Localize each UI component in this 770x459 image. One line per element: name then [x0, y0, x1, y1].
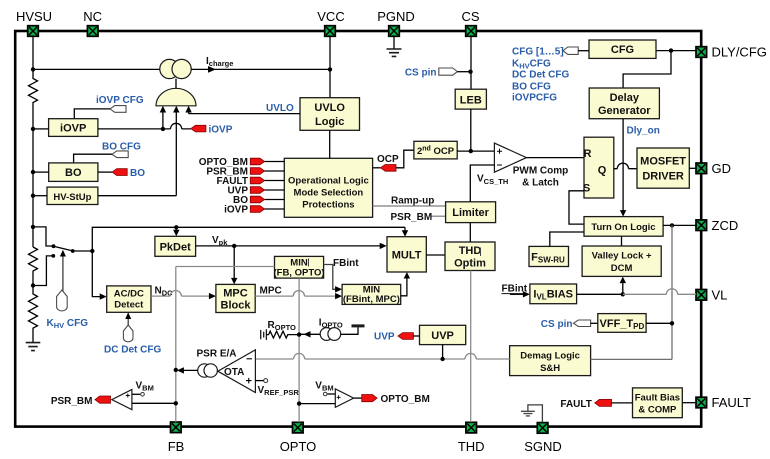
- Valley Lock + DCM box: [582, 246, 661, 276]
- wire UVLO to dome: [189, 113, 300, 115]
- svg-text:FAULT: FAULT: [712, 395, 752, 410]
- wire Turn On to ZCD pin: [663, 224, 696, 226]
- svg-text:& COMP: & COMP: [638, 404, 677, 415]
- wire MPC out with hop: [255, 291, 336, 297]
- BO box: [49, 163, 98, 182]
- wire FBint elbow: [324, 265, 337, 290]
- comparator PSR_BM: [112, 390, 132, 410]
- MIN (FBint, MPC) box: [342, 284, 401, 304]
- 2nd OCP box: [414, 141, 457, 159]
- svg-text:R: R: [584, 148, 592, 160]
- pin SGND: [524, 423, 562, 454]
- iOVP box: [49, 119, 98, 137]
- OTA output current source: [198, 364, 211, 377]
- FSW-RU box: [529, 246, 569, 266]
- HV-StUp box: [47, 187, 98, 204]
- svg-text:BO CFG: BO CFG: [512, 81, 551, 92]
- svg-text:DC Det CFG: DC Det CFG: [104, 345, 161, 356]
- AC/DC Detect box: [107, 286, 151, 312]
- wire VFF_TPD to ZCD rail: [646, 322, 672, 324]
- arrow Vpk into MPC block: [233, 246, 235, 279]
- svg-text:BO: BO: [130, 168, 145, 179]
- svg-text:UVLO: UVLO: [266, 103, 294, 114]
- switch blade KHV: [54, 246, 73, 251]
- svg-text:CFG: CFG: [611, 44, 634, 56]
- svg-text:DLY/CFG: DLY/CFG: [712, 45, 767, 60]
- op logic box U1: [284, 158, 372, 217]
- wire iOVP CFG to iOVP box: [74, 109, 110, 119]
- svg-text:CS pin: CS pin: [405, 68, 437, 79]
- svg-text:Delay: Delay: [610, 92, 640, 104]
- wire to PWM + input: [457, 150, 494, 152]
- svg-text:Detect: Detect: [114, 300, 144, 311]
- Delay Generator box: [589, 88, 659, 119]
- wire MIN out up to MULT: [401, 278, 407, 296]
- pin NC: [83, 9, 102, 36]
- svg-text:GD: GD: [712, 161, 732, 176]
- pin DLY/CFG: [696, 45, 767, 60]
- PWM comparator: [494, 143, 526, 172]
- pin OPTO: [280, 422, 317, 454]
- svg-text:UVLO: UVLO: [314, 102, 345, 114]
- pin THD: [458, 422, 485, 454]
- pin FB: [168, 422, 185, 454]
- wire Turn On to FSW-RU: [550, 232, 584, 246]
- wire Icharge to current mirror: [33, 68, 160, 70]
- svg-text:UVP: UVP: [431, 330, 454, 342]
- flag OCP: [381, 165, 397, 172]
- rail stub ROPTO: [261, 329, 267, 340]
- svg-text:(FB, OPTO): (FB, OPTO): [273, 267, 324, 278]
- PkDet box: [155, 236, 196, 256]
- svg-text:CS: CS: [461, 9, 479, 24]
- svg-text:HV-StUp: HV-StUp: [53, 192, 91, 203]
- svg-text:Dly_on: Dly_on: [627, 126, 660, 137]
- svg-text:Limiter: Limiter: [452, 207, 489, 219]
- wire tap lower: [33, 256, 52, 286]
- wire LEB down: [470, 109, 472, 151]
- svg-text:iOVP: iOVP: [60, 123, 86, 135]
- current mirror (Icharge source): [160, 59, 179, 78]
- wire IVLBIAS to VL pin with hop: [577, 293, 623, 295]
- resistor R divider upper: [29, 247, 38, 286]
- wire HV-StUp out to dome line: [98, 195, 176, 197]
- MPC Block box: [216, 284, 255, 312]
- svg-text:S&H: S&H: [540, 363, 560, 374]
- resistor R divider lower: [29, 286, 38, 343]
- svg-text:OPTO: OPTO: [280, 439, 317, 454]
- node PkDet branch: [174, 225, 178, 229]
- svg-text:Fault Bias: Fault Bias: [635, 392, 680, 403]
- wire OTA out to FB rail: [179, 369, 198, 371]
- flag BO: [112, 169, 127, 176]
- pin PGND: [377, 9, 415, 36]
- svg-text:S: S: [583, 182, 590, 194]
- UVLO Logic box: [300, 98, 360, 131]
- wire Turn On to Valley Lock: [621, 236, 623, 246]
- stub VBM PSR: [132, 393, 140, 395]
- svg-text:ZCD: ZCD: [712, 218, 739, 233]
- flag OPTO_BM out: [354, 397, 362, 399]
- svg-text:FAULT: FAULT: [560, 399, 591, 410]
- wire BO out: [98, 171, 112, 173]
- VFF_TPD box: [598, 314, 646, 333]
- Limiter box: [446, 202, 496, 223]
- flag iOVP input: [224, 204, 284, 215]
- svg-text:KHVCFG: KHVCFG: [512, 58, 551, 70]
- svg-text:& Latch: & Latch: [522, 178, 559, 189]
- svg-text:BO: BO: [65, 167, 82, 179]
- Turn On Logic box: [584, 217, 663, 237]
- Demag Logic S&H box: [510, 346, 591, 376]
- svg-text:SGND: SGND: [524, 439, 562, 454]
- MULT box: [387, 237, 426, 272]
- callout KHV CFG: [57, 290, 68, 311]
- svg-text:CFG [1…5]: CFG [1…5]: [512, 47, 564, 58]
- svg-text:PkDet: PkDet: [160, 242, 192, 254]
- node iOVP / dome arrow: [161, 127, 165, 131]
- arrow VL sense into Valley Lock: [622, 281, 624, 294]
- flag BO input: [233, 195, 284, 206]
- dome arrow right (from UVLO): [188, 109, 190, 114]
- node BO left: [31, 170, 35, 174]
- svg-text:iOVP: iOVP: [224, 204, 248, 215]
- wire OPTO rail: [298, 278, 300, 422]
- svg-text:PSR E/A: PSR E/A: [197, 349, 237, 360]
- pin FAULT: [696, 395, 751, 410]
- wire oplogic to OCP flag: [373, 167, 381, 169]
- supply bar IOPTO: [341, 327, 358, 334]
- node VCC junction: [328, 67, 332, 71]
- node divider top: [31, 225, 35, 229]
- svg-text:Turn On Logic: Turn On Logic: [591, 222, 655, 233]
- pin CS: [461, 9, 479, 36]
- wire UVLO Logic to Op Logic: [329, 130, 331, 158]
- wire FB rail: [175, 267, 177, 423]
- wire OTA minus rail to Demag with hops: [255, 353, 509, 359]
- pin ZCD: [696, 218, 738, 233]
- wire CS pin down: [470, 36, 472, 89]
- wire driver to GD pin: [689, 167, 696, 169]
- flag iOVP: [191, 125, 206, 132]
- svg-text:iOVPCFG: iOVPCFG: [512, 93, 557, 104]
- arrow into PkDet: [175, 227, 177, 231]
- svg-text:DCM: DCM: [611, 263, 633, 274]
- chip outline border: [15, 31, 701, 427]
- svg-text:PWM Comp: PWM Comp: [513, 166, 569, 177]
- wire PSR comp minus to FB rail: [132, 402, 176, 404]
- svg-text:CS pin: CS pin: [541, 319, 573, 330]
- LEB box: [455, 89, 486, 109]
- node 2nd OCP / PWM+: [469, 149, 473, 153]
- svg-text:THD: THD: [458, 439, 485, 454]
- wire ramp-up: [373, 205, 446, 207]
- arrow KHV CFG actuator: [62, 255, 64, 296]
- pin VCC: [317, 9, 344, 36]
- svg-text:PSR_BM: PSR_BM: [391, 212, 433, 223]
- dome OR-gate shape: [156, 88, 196, 106]
- dome arrow middle (from HV-StUp): [175, 109, 177, 196]
- MOSFET DRIVER box: [637, 148, 689, 188]
- svg-text:OTA: OTA: [224, 367, 244, 378]
- svg-text:FB: FB: [168, 439, 185, 454]
- svg-text:MPC: MPC: [260, 286, 282, 297]
- svg-text:VCC: VCC: [317, 9, 344, 24]
- wire THD Optim down to THD pin: [470, 271, 472, 423]
- svg-text:OPTO_BM: OPTO_BM: [381, 394, 430, 405]
- node ROPTO/OPTO rail: [297, 332, 301, 336]
- callout CFG: [563, 47, 578, 54]
- pin GD: [696, 161, 731, 176]
- CFG box: [589, 40, 656, 58]
- ground left: [26, 343, 41, 351]
- svg-text:Q: Q: [598, 165, 607, 177]
- callout iOVP CFG: [110, 106, 126, 113]
- node UVP sense: [440, 357, 444, 361]
- callout DC Det CFG: [123, 325, 133, 342]
- wire UVP down: [442, 345, 444, 359]
- svg-text:HVSU: HVSU: [16, 9, 52, 24]
- wire CFG junction to Delay Generator: [623, 51, 671, 88]
- stub VBM OPTO: [327, 393, 335, 395]
- UVP box: [420, 325, 466, 344]
- svg-text:MULT: MULT: [392, 249, 422, 261]
- resistor R top (HVSU divider): [29, 69, 38, 128]
- svg-text:(FBint, MPC): (FBint, MPC): [343, 294, 400, 305]
- wire OPTO rail to comp minus: [299, 403, 335, 405]
- wire iOVP out with hop: [98, 123, 191, 129]
- wire limiter to THD optim: [469, 223, 471, 242]
- svg-text:Optim: Optim: [454, 258, 486, 270]
- MIN (FB, OPTO) box: [275, 256, 324, 278]
- node iOVP left: [31, 127, 35, 131]
- RS latch U2: [584, 137, 614, 198]
- svg-text:iOVP: iOVP: [209, 124, 233, 135]
- svg-text:DRIVER: DRIVER: [642, 171, 684, 183]
- node FB/OTA: [174, 368, 178, 372]
- ground SGND: [528, 405, 543, 423]
- wire current mirror to VCC rail: [191, 68, 330, 70]
- svg-text:NC: NC: [83, 9, 102, 24]
- comparator OPTO_BM: [335, 389, 353, 407]
- left rail down: [32, 129, 34, 247]
- pin VL: [696, 287, 727, 302]
- flag PSR_BM input: [206, 166, 284, 177]
- wire BO CFG to BO box: [74, 154, 112, 163]
- wire common to AC/DC detect: [92, 251, 101, 297]
- wire CFG to DLY/CFG pin: [656, 50, 696, 52]
- node divider mid: [31, 283, 35, 287]
- svg-text:Operational Logic: Operational Logic: [288, 176, 369, 187]
- wire Demag to ZCD rail: [591, 358, 672, 360]
- wire common up to Vpk rail: [92, 227, 405, 251]
- pin HVSU: [16, 9, 52, 36]
- current source IOPTO: [320, 328, 333, 341]
- svg-text:LEB: LEB: [460, 95, 482, 107]
- svg-text:iOVP CFG: iOVP CFG: [96, 95, 144, 106]
- ground PGND: [393, 36, 395, 48]
- wire ZCD rail down: [671, 225, 673, 359]
- arrow FBint into IVLBIAS: [510, 293, 525, 295]
- svg-text:PSR_BM: PSR_BM: [51, 396, 93, 407]
- svg-text:OCP: OCP: [377, 154, 399, 165]
- wire PSR_BM to limiter: [431, 215, 446, 217]
- node HVSU/Icharge junction: [31, 67, 35, 71]
- resistor ROPTO: [266, 331, 299, 338]
- svg-text:FBint: FBint: [333, 258, 359, 269]
- node CS callout: [468, 70, 472, 74]
- wire Dly_on down to Turn On Logic: [622, 119, 624, 212]
- callout BO CFG: [112, 151, 128, 158]
- wire tap upper: [33, 227, 53, 246]
- wire VCC down to UVLO: [329, 36, 331, 97]
- THD Optim box: [445, 242, 495, 271]
- svg-text:MPC: MPC: [223, 288, 248, 300]
- svg-text:VL: VL: [712, 287, 728, 302]
- IVLBIAS box: [530, 284, 577, 304]
- arrow into MULT top: [404, 227, 406, 232]
- Fault Bias & COMP box: [633, 388, 683, 418]
- svg-text:THD: THD: [459, 245, 482, 257]
- wire FB into MIN: [176, 266, 275, 268]
- wire PkDet out to MULT: [196, 245, 381, 247]
- svg-text:Mode Selection: Mode Selection: [294, 188, 364, 199]
- svg-text:Generator: Generator: [598, 105, 651, 117]
- svg-text:MOSFET: MOSFET: [640, 156, 686, 168]
- arrow DC Det CFG into AC/DC: [127, 317, 129, 325]
- svg-text:Logic: Logic: [315, 116, 344, 128]
- flag FAULT input: [217, 176, 285, 187]
- OTA triangle: [218, 350, 256, 393]
- wire S input: [569, 191, 584, 224]
- wire OCP flag to 2nd OCP: [396, 150, 414, 168]
- wire Fault Bias to FAULT pin: [682, 402, 696, 404]
- wire HVSU down: [32, 36, 34, 69]
- svg-text:UVP: UVP: [374, 331, 395, 342]
- svg-text:Demag Logic: Demag Logic: [520, 350, 580, 361]
- svg-text:Protections: Protections: [302, 200, 354, 211]
- wire NDC to MPC with hop: [151, 291, 210, 297]
- wire PWM - input from limiter: [470, 165, 494, 202]
- svg-text:AC/DC: AC/DC: [114, 289, 144, 300]
- svg-text:Ramp-up: Ramp-up: [391, 196, 434, 207]
- svg-text:PGND: PGND: [377, 9, 415, 24]
- wire dome stem: [175, 79, 177, 89]
- svg-text:Valley Lock +: Valley Lock +: [592, 251, 652, 262]
- svg-text:DC Det CFG: DC Det CFG: [512, 70, 569, 81]
- dome arrow left: [162, 109, 164, 129]
- flag UVP input: [227, 185, 284, 196]
- wire switch common: [73, 250, 93, 252]
- svg-text:Block: Block: [221, 300, 252, 312]
- wire IOPTO into node: [299, 333, 320, 335]
- wire Q to MOSFET driver with hop: [614, 163, 637, 169]
- node HV-StUp left: [31, 194, 35, 198]
- node Vpk: [232, 244, 236, 248]
- svg-text:KHV CFG: KHV CFG: [47, 318, 89, 330]
- wire MULT to THD Optim: [426, 254, 445, 256]
- callout CS pin top: [439, 68, 458, 75]
- wire PWM comp to R: [526, 157, 584, 159]
- flag OPTO_BM input: [199, 157, 285, 168]
- stub OTA plus input VREF_PSR: [255, 380, 263, 382]
